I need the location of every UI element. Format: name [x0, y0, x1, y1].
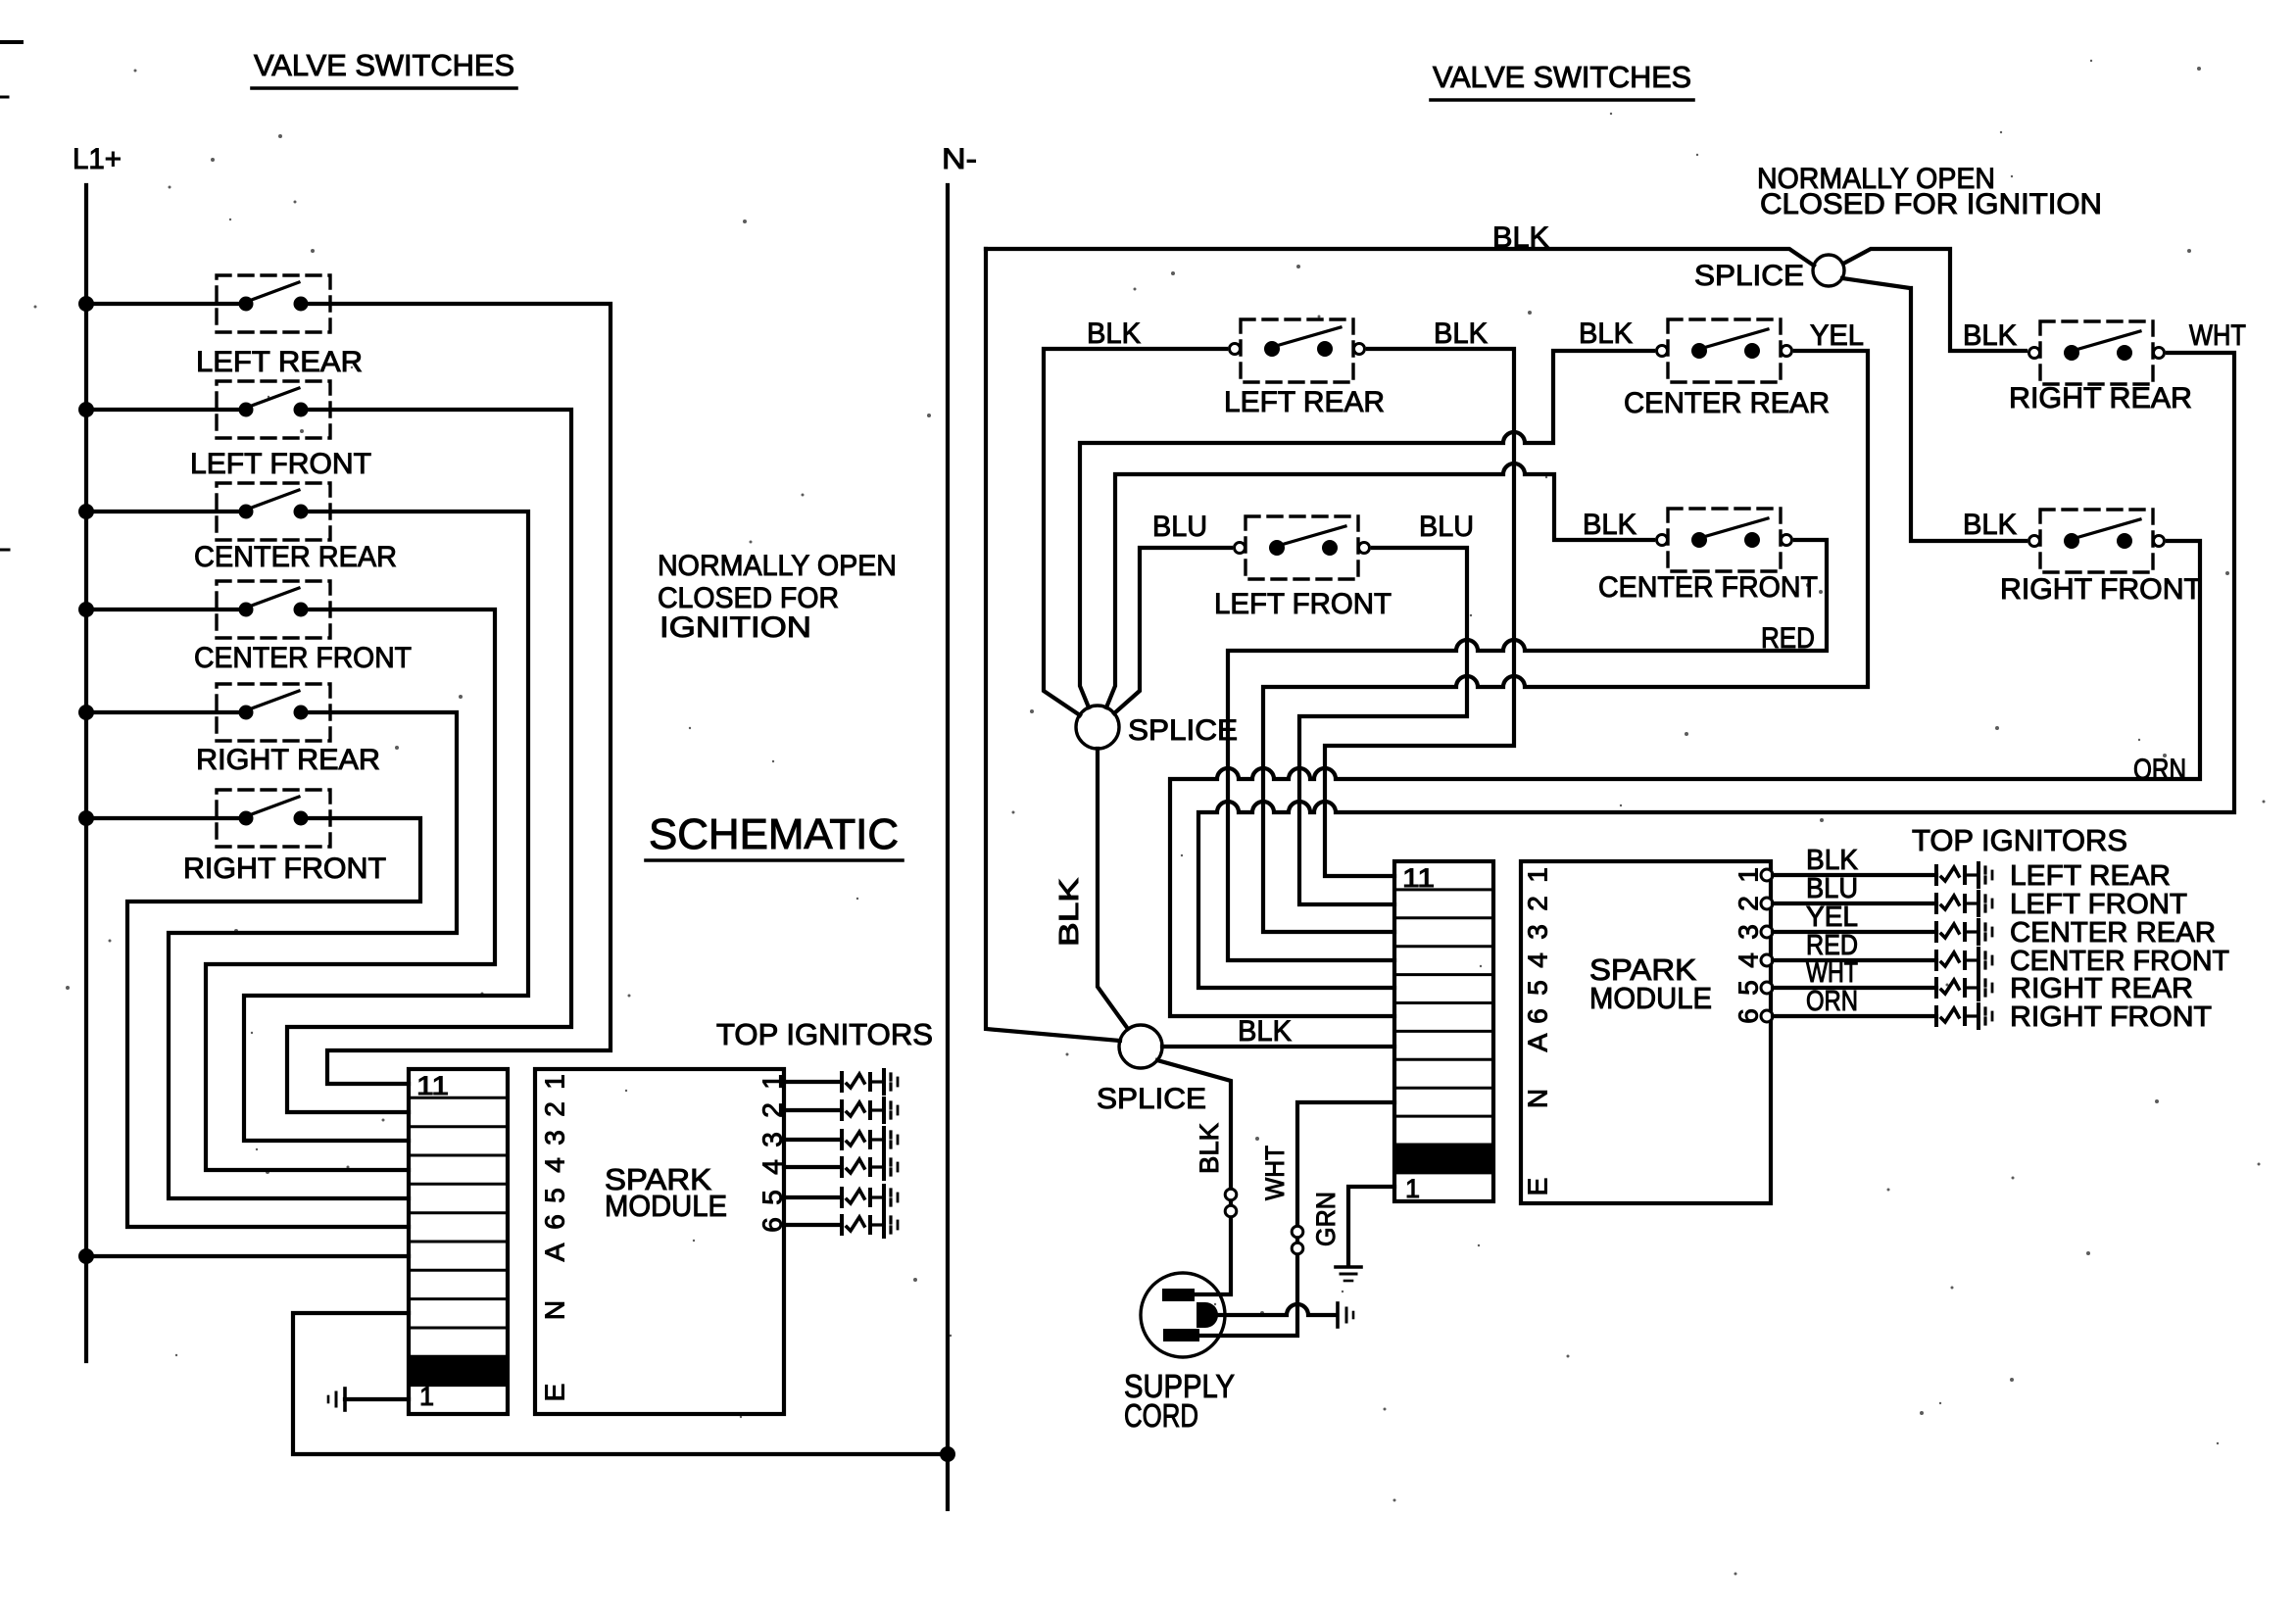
- wire riser left side (BLK) down to splice S3: [986, 249, 1120, 1041]
- svg-text:ORN: ORN: [1806, 986, 1858, 1017]
- svg-text:E: E: [1523, 1178, 1553, 1196]
- connector strip P2 (right diagram, pins 11..1): [1394, 861, 1493, 1201]
- wire BLU module pin 2 to ignitor: [1773, 902, 1936, 905]
- ignitor RIGHT REAR (left diagram): [840, 1189, 844, 1206]
- wire CENTER REAR output YEL to connector pin 9: [1263, 351, 1868, 932]
- junction dot L1 / RIGHT FRONT: [78, 810, 94, 826]
- svg-text:CLOSED FOR: CLOSED FOR: [658, 582, 839, 614]
- svg-text:RIGHT FRONT: RIGHT FRONT: [2010, 1001, 2212, 1033]
- supply cord plug: [1141, 1273, 1225, 1357]
- svg-text:BLU: BLU: [1152, 511, 1207, 543]
- wire L1 to LEFT FRONT switch: [86, 408, 246, 412]
- svg-text:2: 2: [1734, 896, 1764, 911]
- svg-text:LEFT REAR: LEFT REAR: [2010, 860, 2171, 892]
- svg-text:1: 1: [419, 1382, 434, 1411]
- svg-text:2: 2: [1523, 896, 1553, 911]
- wire RED module pin 4 to ignitor: [1773, 958, 1936, 962]
- valve switch LEFT FRONT (left diagram): [217, 381, 330, 438]
- splice S3: [1119, 1025, 1162, 1068]
- ignitor LEFT REAR (right diagram): [1934, 866, 1938, 884]
- wire LEFT FRONT output to connector pin 10: [287, 410, 571, 1112]
- svg-text:LEFT FRONT: LEFT FRONT: [1214, 588, 1392, 620]
- wire L1 to RIGHT REAR switch: [86, 710, 246, 714]
- svg-text:BLK: BLK: [1238, 1015, 1292, 1048]
- svg-text:LEFT REAR: LEFT REAR: [1224, 386, 1385, 418]
- wire YEL module pin 3 to ignitor: [1773, 930, 1936, 934]
- junction dot L1 / LEFT FRONT: [78, 402, 94, 417]
- svg-text:CENTER REAR: CENTER REAR: [2010, 917, 2216, 949]
- wire RIGHT REAR output to connector pin 7: [169, 712, 457, 1198]
- svg-text:RIGHT FRONT: RIGHT FRONT: [2000, 573, 2202, 606]
- svg-text:BLK: BLK: [1087, 317, 1141, 350]
- wire LEFT FRONT left terminal to splice S2: [1114, 548, 1231, 713]
- svg-text:1: 1: [540, 1074, 570, 1090]
- svg-text:BLK: BLK: [1434, 317, 1488, 350]
- svg-text:LEFT FRONT: LEFT FRONT: [2010, 889, 2187, 920]
- svg-text:MODULE: MODULE: [605, 1189, 727, 1223]
- wire splice S3 to connector pin 5 (BLK): [1162, 1045, 1394, 1048]
- wire L1 bus: [84, 185, 88, 1361]
- wire LEFT FRONT output BLU to connector pin 10: [1299, 548, 1467, 904]
- svg-text:A: A: [540, 1243, 570, 1261]
- wire CENTER REAR feed from splice S2: [1080, 351, 1653, 707]
- chassis ground symbol (supply): [1336, 1303, 1340, 1327]
- svg-text:6: 6: [1734, 1008, 1764, 1024]
- junction dot L1 / CENTER REAR: [78, 504, 94, 519]
- wire GRN connector pin 1 to ground: [1348, 1187, 1394, 1265]
- wire splice S2 down to splice S3 (BLK): [1098, 749, 1128, 1029]
- wire supply neutral prong to chassis ground: [1218, 1304, 1336, 1315]
- svg-text:CLOSED FOR IGNITION: CLOSED FOR IGNITION: [1760, 188, 2102, 220]
- svg-text:YEL: YEL: [1806, 902, 1858, 933]
- junction dot N bus bottom: [940, 1446, 955, 1462]
- svg-text:6: 6: [1523, 1008, 1553, 1024]
- svg-text:E: E: [540, 1384, 570, 1402]
- valve switch RIGHT REAR (left diagram): [217, 684, 330, 741]
- svg-text:SPLICE: SPLICE: [1097, 1083, 1206, 1115]
- svg-text:N: N: [1523, 1089, 1553, 1108]
- junction dot L1 / CENTER FRONT: [78, 602, 94, 617]
- svg-text:YEL: YEL: [1810, 319, 1864, 352]
- wire LEFT REAR left terminal to splice S2: [1044, 349, 1226, 715]
- svg-text:BLK: BLK: [1195, 1123, 1224, 1174]
- svg-text:5: 5: [1523, 980, 1553, 996]
- valve switch RIGHT FRONT (left diagram): [217, 790, 330, 847]
- wire LEFT REAR output BLK to connector pin 11: [1325, 349, 1514, 876]
- wire connector pin 3 to N bus (neutral return): [293, 1313, 948, 1454]
- svg-text:5: 5: [540, 1188, 570, 1203]
- svg-text:LEFT REAR: LEFT REAR: [196, 346, 363, 378]
- connector strip P1 (left diagram, pins 11..1): [409, 1069, 508, 1414]
- svg-text:RIGHT REAR: RIGHT REAR: [2009, 382, 2192, 414]
- ignitor RIGHT FRONT (right diagram): [1934, 1007, 1938, 1025]
- svg-text:WHT: WHT: [1260, 1146, 1290, 1200]
- spark module U1 (left diagram): [535, 1069, 784, 1414]
- valve switch CENTER FRONT (right diagram): [1668, 509, 1781, 571]
- ignitor CENTER FRONT (left diagram): [840, 1158, 844, 1176]
- svg-text:BLK: BLK: [1053, 878, 1084, 947]
- svg-text:CENTER FRONT: CENTER FRONT: [1598, 571, 1818, 604]
- svg-text:RIGHT REAR: RIGHT REAR: [196, 744, 380, 776]
- ground symbol (GRN): [1336, 1265, 1361, 1269]
- svg-text:SCHEMATIC: SCHEMATIC: [649, 810, 899, 858]
- wire CENTER FRONT output RED to connector pin 8: [1228, 540, 1827, 960]
- svg-text:4: 4: [540, 1157, 570, 1173]
- svg-text:11: 11: [1402, 863, 1435, 893]
- wire L1 to RIGHT FRONT switch: [86, 816, 246, 820]
- svg-text:VALVE SWITCHES: VALVE SWITCHES: [254, 48, 514, 82]
- wire BLK module pin 1 to ignitor: [1773, 873, 1936, 877]
- svg-text:CENTER FRONT: CENTER FRONT: [194, 642, 412, 674]
- valve switch CENTER REAR (right diagram): [1668, 319, 1781, 382]
- ignitor LEFT REAR (left diagram): [840, 1073, 844, 1091]
- ignitor CENTER REAR (right diagram): [1934, 923, 1938, 941]
- svg-text:GRN: GRN: [1311, 1192, 1341, 1246]
- wire RIGHT FRONT output ORN to connector pin 6: [1170, 541, 2200, 1016]
- svg-text:BLK: BLK: [1963, 319, 2017, 352]
- splice S1: [1813, 255, 1844, 286]
- svg-text:1: 1: [1734, 867, 1764, 883]
- ignitor CENTER REAR (left diagram): [840, 1131, 844, 1148]
- svg-text:2: 2: [540, 1101, 570, 1117]
- valve switch RIGHT FRONT (right diagram): [2040, 510, 2153, 572]
- splice S2: [1076, 706, 1119, 749]
- svg-text:4: 4: [1734, 952, 1764, 968]
- wire RIGHT FRONT output to connector pin 6: [127, 818, 420, 1227]
- svg-text:SPLICE: SPLICE: [1694, 260, 1804, 292]
- svg-text:BLU: BLU: [1806, 873, 1858, 904]
- svg-text:WHT: WHT: [2189, 319, 2246, 352]
- wire ORN module pin 6 to ignitor: [1773, 1014, 1936, 1018]
- wire BLK top feed from splice S3 riser to splice S1: [986, 249, 1814, 266]
- svg-text:N-: N-: [942, 143, 977, 175]
- svg-text:L1+: L1+: [73, 143, 122, 175]
- wire LEFT REAR output to connector pin 11: [301, 304, 611, 1084]
- wire CENTER FRONT feed from splice S2: [1106, 463, 1653, 707]
- svg-text:1: 1: [1405, 1174, 1420, 1203]
- svg-text:CENTER REAR: CENTER REAR: [1624, 387, 1830, 419]
- svg-text:1: 1: [1523, 867, 1553, 883]
- svg-text:4: 4: [1523, 952, 1553, 968]
- junction dot L1 / LEFT REAR: [78, 296, 94, 312]
- valve switch CENTER REAR (left diagram): [217, 483, 330, 540]
- svg-text:3: 3: [540, 1130, 570, 1146]
- valve switch LEFT REAR (right diagram): [1241, 319, 1353, 382]
- svg-text:6: 6: [540, 1214, 570, 1230]
- svg-text:MODULE: MODULE: [1589, 981, 1712, 1015]
- wire CENTER FRONT output to connector pin 8: [206, 609, 495, 1170]
- valve switch LEFT FRONT (right diagram): [1246, 516, 1358, 579]
- junction dot L1 / RIGHT REAR: [78, 705, 94, 720]
- valve switch CENTER FRONT (left diagram): [217, 581, 330, 638]
- wire splice S1 to RIGHT FRONT switch (BLK): [1842, 278, 2026, 541]
- wire splice S1 to RIGHT REAR switch (BLK): [1843, 249, 2026, 351]
- svg-text:LEFT FRONT: LEFT FRONT: [190, 448, 371, 480]
- svg-text:CENTER REAR: CENTER REAR: [194, 541, 397, 573]
- svg-text:3: 3: [1734, 924, 1764, 940]
- valve switch RIGHT REAR (right diagram): [2040, 321, 2153, 384]
- wire L1 to CENTER REAR switch: [86, 510, 246, 513]
- svg-text:TOP IGNITORS: TOP IGNITORS: [716, 1017, 933, 1051]
- spark module U2 (right diagram): [1521, 861, 1771, 1203]
- svg-text:BLK: BLK: [1579, 317, 1633, 350]
- inline connector on WHT supply wire: [1292, 1226, 1303, 1238]
- inline connector on BLK supply wire: [1225, 1189, 1237, 1200]
- svg-text:5: 5: [1734, 980, 1764, 996]
- svg-text:TOP IGNITORS: TOP IGNITORS: [1912, 823, 2127, 857]
- ignitor LEFT FRONT (right diagram): [1934, 895, 1938, 912]
- svg-text:IGNITION: IGNITION: [659, 611, 811, 644]
- svg-text:A: A: [1523, 1033, 1553, 1051]
- svg-text:BLK: BLK: [1806, 845, 1859, 876]
- svg-text:WHT: WHT: [1806, 957, 1858, 989]
- ignitor LEFT FRONT (left diagram): [840, 1101, 844, 1119]
- wire WHT supply prong to connector pin 3: [1199, 1102, 1394, 1336]
- ignitor CENTER FRONT (right diagram): [1934, 951, 1938, 969]
- svg-text:11: 11: [416, 1071, 449, 1100]
- wire L1 to CENTER FRONT switch: [86, 608, 246, 611]
- svg-text:SPLICE: SPLICE: [1128, 714, 1238, 747]
- svg-text:NORMALLY OPEN: NORMALLY OPEN: [658, 550, 897, 582]
- svg-text:N: N: [540, 1300, 570, 1320]
- svg-text:BLK: BLK: [1583, 509, 1637, 541]
- wire RIGHT REAR output WHT to connector pin 7: [1198, 353, 2234, 988]
- ignitor RIGHT REAR (right diagram): [1934, 979, 1938, 997]
- ground symbol (left diagram): [343, 1389, 347, 1410]
- svg-text:RIGHT FRONT: RIGHT FRONT: [183, 853, 386, 885]
- wire N bus: [946, 185, 950, 1509]
- svg-text:VALVE SWITCHES: VALVE SWITCHES: [1433, 60, 1691, 94]
- wire splice S3 to supply cord hot (BLK): [1157, 1060, 1231, 1294]
- ignitor RIGHT FRONT (left diagram): [840, 1216, 844, 1234]
- svg-text:3: 3: [1523, 924, 1553, 940]
- svg-text:CORD: CORD: [1124, 1397, 1198, 1434]
- wire L1 to LEFT REAR switch: [86, 302, 246, 306]
- svg-text:BLU: BLU: [1419, 511, 1474, 543]
- wire CENTER REAR output to connector pin 9: [244, 512, 528, 1141]
- svg-text:BLK: BLK: [1963, 509, 2017, 541]
- wire WHT module pin 5 to ignitor: [1773, 986, 1936, 990]
- wire ground to connector pin 1: [345, 1397, 409, 1401]
- wire L1 tap to connector pin 5: [78, 1248, 94, 1264]
- svg-text:RIGHT REAR: RIGHT REAR: [2010, 973, 2193, 1004]
- valve switch LEFT REAR (left diagram): [217, 275, 330, 332]
